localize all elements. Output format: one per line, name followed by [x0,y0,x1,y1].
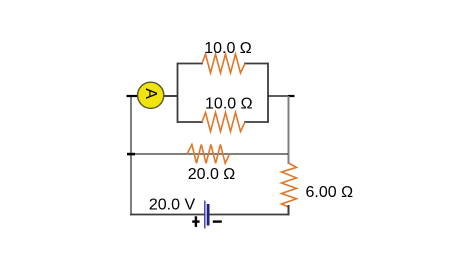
resistor R1 10.0 ohm (top branch) [202,54,245,73]
svg-text:10.0 Ω: 10.0 Ω [204,40,252,57]
resistor R2 10.0 ohm (bottom branch) [202,113,245,132]
resistor R4 6.00 ohm (right vertical) [282,163,297,207]
battery V1 negative plate (short thick) [207,204,210,226]
wire bottom branch right [244,121,268,123]
svg-text:20.0 V: 20.0 V [149,197,196,214]
node stub middle-left [127,153,135,156]
label minus sign [213,220,222,222]
wire top branch left [178,63,204,65]
battery V1 positive plate (long) [204,201,206,229]
svg-text:A: A [142,88,159,99]
wire ammeter right lead [164,95,178,97]
svg-text:10.0 Ω: 10.0 Ω [205,95,253,112]
node stub right [288,95,295,97]
wire gap between battery plates [206,213,207,216]
wire stub left of ammeter [127,95,140,97]
wire middle horizontal [127,153,288,155]
svg-text:6.00 Ω: 6.00 Ω [306,184,354,201]
label plus sign [192,216,199,227]
wire right vertical lower [288,205,290,215]
resistor R3 20.0 ohm (middle wire) [187,145,230,164]
wire right vertical upper [288,96,290,164]
wire top branch right [244,63,268,65]
ammeter U1 [138,82,164,108]
svg-text:20.0 Ω: 20.0 Ω [188,166,236,183]
wire bottom rail [130,214,289,216]
wire box to right node [268,95,295,97]
wire left vertical (node from ammeter down to bottom rail) [130,96,132,214]
wire bottom branch left [178,121,204,123]
parallel box left edge wire [177,63,179,123]
parallel box right edge wire [267,63,269,123]
